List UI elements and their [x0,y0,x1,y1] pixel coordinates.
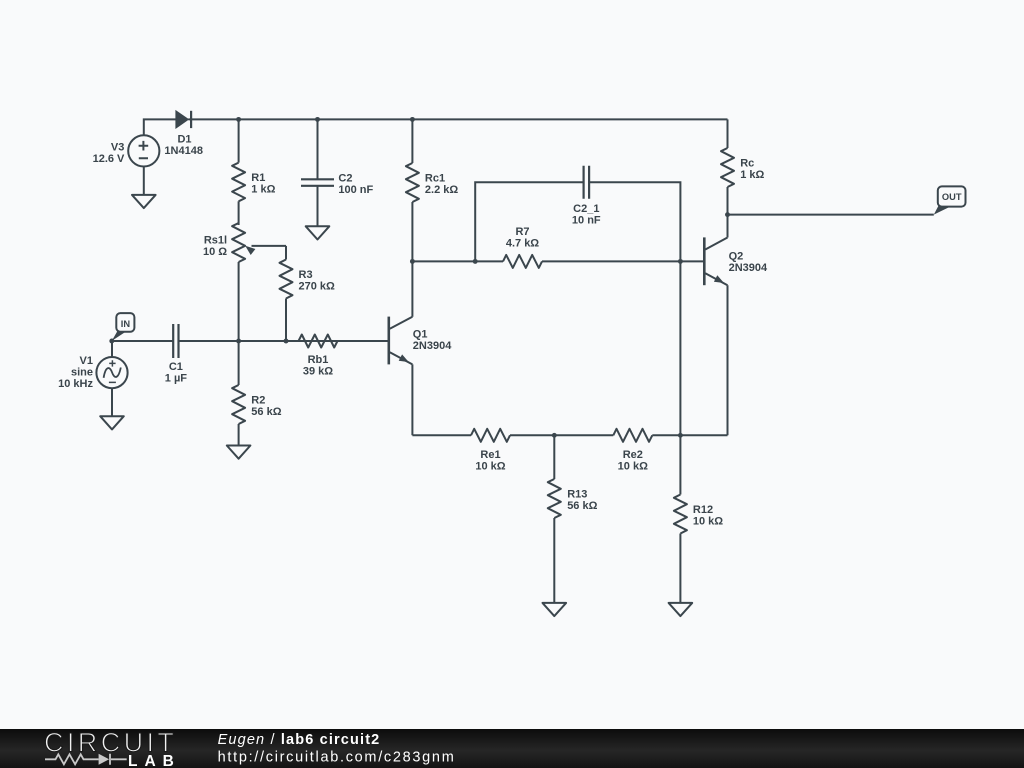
wire Rs1l to input row [238,262,240,341]
wire Q1 collector [411,261,413,316]
ground below R13 [543,603,567,616]
svg-text:IN: IN [121,319,131,329]
ground below V1 [100,416,124,429]
wiper arrow [245,246,255,255]
wire Q2 base [680,260,704,262]
svg-text:56 kΩ: 56 kΩ [251,406,281,418]
svg-text:R2: R2 [251,395,265,407]
CircuitLab logo wordmark [44,728,181,768]
ground below C2 [306,226,330,239]
svg-text:10 kΩ: 10 kΩ [693,516,723,528]
wire R7 row right [542,260,680,262]
svg-text:Rb1: Rb1 [308,354,329,366]
svg-text:10 kHz: 10 kHz [58,378,93,390]
svg-text:39 kΩ: 39 kΩ [303,366,333,378]
svg-text:270 kΩ: 270 kΩ [299,281,336,293]
svg-text:Rs1l: Rs1l [204,235,227,247]
svg-text:1 µF: 1 µF [165,373,188,385]
svg-text:1 kΩ: 1 kΩ [740,169,764,181]
svg-text:Eugen / lab6 circuit2: Eugen / lab6 circuit2 [218,732,381,748]
junction R7-C2_1 left [473,259,478,264]
junction R7-C2_1 right [678,259,683,264]
voltage source V3 [93,135,160,166]
wire R1 to Rs1l [238,201,240,225]
capacitor C2_1 [572,166,601,227]
svg-text:1N4148: 1N4148 [164,145,203,157]
resistor R1 [232,119,275,201]
wire V1 bottom lead [111,388,113,416]
svg-text:56 kΩ: 56 kΩ [567,500,597,512]
svg-text:Re1: Re1 [480,449,500,461]
junction rail-C2 [315,117,320,122]
junction Rc1-R7 [410,259,415,264]
svg-text:R12: R12 [693,504,713,516]
node IN flag [112,313,135,341]
svg-text:C1: C1 [169,361,183,373]
svg-text:C2: C2 [338,172,352,184]
junction input-R2 [236,339,241,344]
ground below R2 [227,446,251,459]
wire C1 to Q1 base [179,340,389,342]
ground below V3 [132,195,156,208]
svg-text:C2_1: C2_1 [573,203,599,215]
node OUT flag [934,186,966,214]
wire Re row middle [510,434,613,436]
wire Q1 emitter [411,364,413,435]
diode D1 [164,111,203,157]
svg-text:2N3904: 2N3904 [413,340,452,352]
wire V1 top lead [111,341,113,357]
wire Re row left [412,434,471,436]
wire Q2 collector [727,215,729,238]
wire R7 row left [412,260,503,262]
svg-text:R3: R3 [299,269,313,281]
wire V3 bottom lead [143,167,145,195]
logo diode triangle [99,754,110,765]
svg-text:sine: sine [71,367,93,379]
resistor Re1 [471,429,510,473]
svg-text:OUT: OUT [942,192,962,202]
ground below R12 [669,603,693,616]
svg-text:http://circuitlab.com/c283gnm: http://circuitlab.com/c283gnm [218,750,456,766]
junction IN node [109,339,114,344]
svg-text:10 kΩ: 10 kΩ [618,461,648,473]
junction Re2-R12 [678,433,683,438]
resistor R2 [232,341,282,446]
wire V3 top lead to rail [144,119,176,135]
wire Q2 emitter [727,285,729,435]
svg-text:10 kΩ: 10 kΩ [475,461,505,473]
svg-text:100 nF: 100 nF [338,184,373,196]
svg-text:Q1: Q1 [413,329,428,341]
wire C2_1 right branch [589,182,680,435]
svg-text:Rc: Rc [740,158,754,170]
resistor Rb1 [299,335,338,378]
wire Re row right [652,434,727,436]
svg-text:12.6 V: 12.6 V [93,153,125,165]
svg-text:Rc1: Rc1 [425,173,445,185]
resistor R13 [548,435,598,603]
capacitor C1 [165,324,188,385]
junction Re1-R13 [552,433,557,438]
resistor Re2 [613,429,652,473]
wire top rail [188,118,727,120]
svg-text:Re2: Re2 [623,449,643,461]
svg-text:LAB: LAB [128,753,181,768]
svg-text:1 kΩ: 1 kΩ [251,184,275,196]
junction input-R3 [284,339,289,344]
wire OUT [728,214,934,216]
junction Rc-OUT [725,212,730,217]
svg-text:2N3904: 2N3904 [729,262,768,274]
resistor R12 [674,435,723,603]
svg-text:D1: D1 [177,133,191,145]
svg-text:R13: R13 [567,489,587,501]
wire Rs1l wiper [252,245,287,247]
svg-text:10 Ω: 10 Ω [203,246,227,258]
logo resistor-diode glyph [45,754,127,765]
svg-text:4.7 kΩ: 4.7 kΩ [506,237,539,249]
svg-text:R7: R7 [515,226,529,238]
wire C2_1 left branch [475,182,583,261]
voltage source V1 [58,355,127,390]
wire IN to C1 [112,340,173,342]
resistor Rc1 [406,119,458,261]
svg-text:V3: V3 [111,141,124,153]
svg-text:V1: V1 [80,355,93,367]
svg-text:Q2: Q2 [729,251,744,263]
svg-text:2.2 kΩ: 2.2 kΩ [425,184,458,196]
resistor R7 [503,226,542,268]
potentiometer Rs1l [203,223,245,262]
transistor Q2 [704,237,768,285]
junction rail-R1 [236,117,241,122]
svg-text:R1: R1 [251,172,265,184]
capacitor C2 [301,119,374,226]
svg-text:10 nF: 10 nF [572,215,601,227]
resistor R3 [280,246,336,341]
resistor Rc [721,119,764,214]
junction rail-Rc1 [410,117,415,122]
transistor Q1 [389,317,452,365]
